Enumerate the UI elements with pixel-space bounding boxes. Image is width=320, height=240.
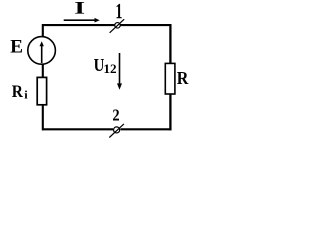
wire top left segment (corner to node 1)	[42, 24, 114, 26]
voltage arrow U12	[117, 53, 122, 90]
current arrow I	[64, 18, 100, 23]
wire right lower (resistor R to bottom corner)	[169, 94, 171, 130]
wire left lower (resistor Ri to bottom corner)	[42, 105, 44, 131]
label U12	[94, 59, 116, 73]
EMF source E (circle with upward arrow)	[28, 37, 56, 65]
node 1 terminal (circle with slash)	[110, 19, 125, 33]
label Ri	[12, 86, 28, 99]
wire top right segment (node 1 to corner)	[121, 24, 172, 26]
label 1	[117, 4, 122, 18]
wire left middle (source E to resistor Ri)	[42, 64, 44, 77]
resistor Ri	[37, 77, 46, 104]
label I	[75, 2, 84, 14]
wire bottom right segment (node 2 to corner)	[120, 128, 171, 130]
wire left upper (corner down to source E)	[42, 24, 44, 36]
resistor R	[165, 63, 175, 94]
label R	[177, 72, 189, 84]
node 2 terminal (circle with slash)	[109, 124, 124, 138]
label E	[11, 40, 23, 53]
label 2	[113, 110, 119, 121]
wire bottom left segment (corner to node 2)	[42, 128, 113, 130]
wire right upper (corner down to resistor R)	[169, 24, 171, 63]
